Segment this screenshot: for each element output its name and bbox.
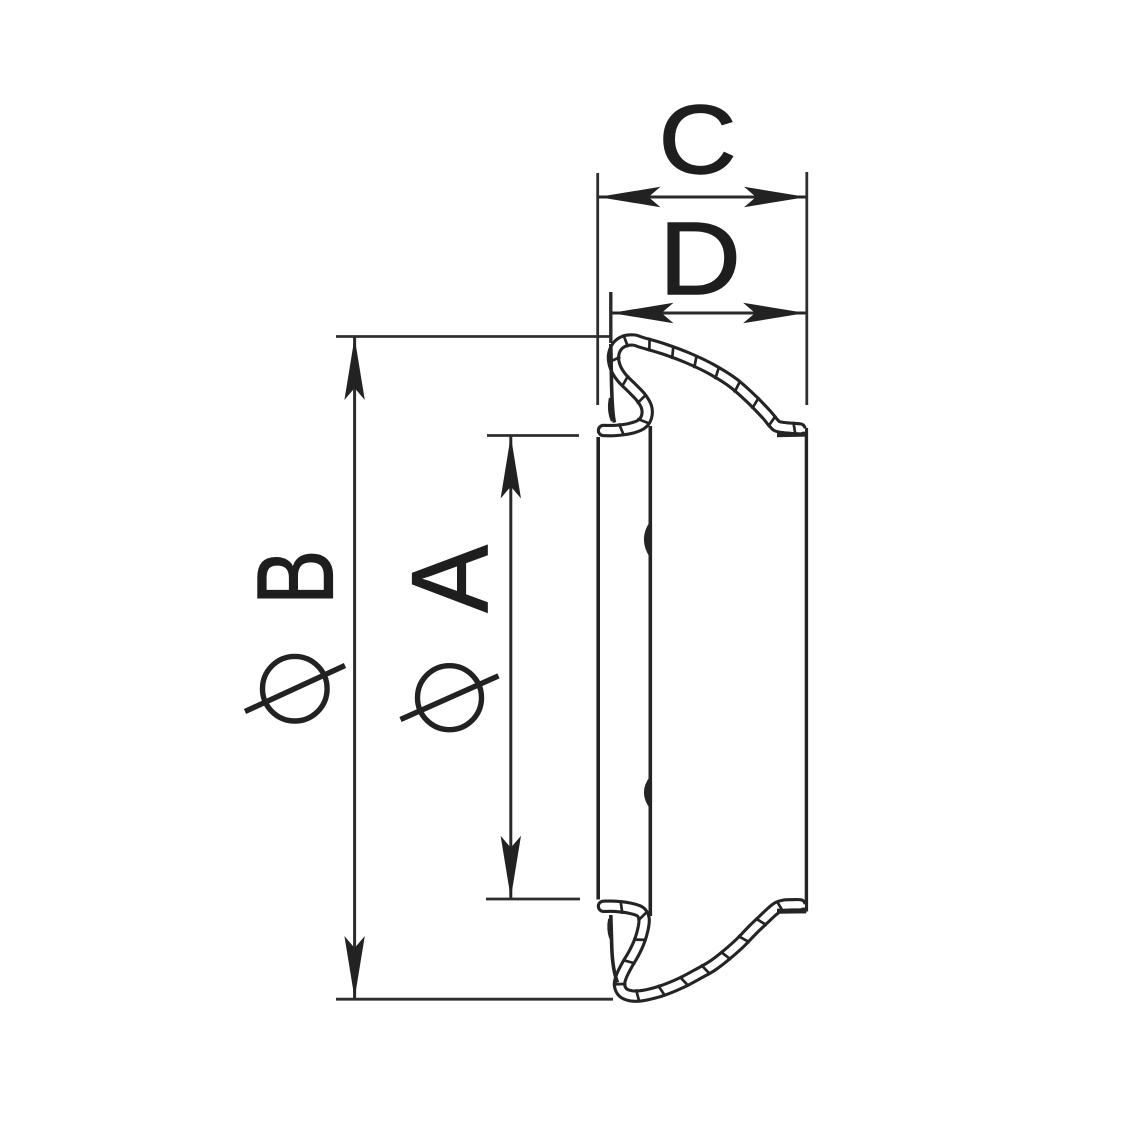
- svg-text:A: A: [390, 545, 511, 613]
- top step pinch: [777, 431, 806, 437]
- bottom rolled rim and shell section (outline): [604, 905, 801, 996]
- svg-text:D: D: [659, 202, 741, 317]
- extension line B bottom: [336, 998, 613, 1001]
- extension line D left: [609, 292, 612, 343]
- top shell section hatch ticks: [608, 335, 796, 436]
- bottom rim rolled-edge silhouette: [611, 915, 618, 983]
- bead mark upper on inner wall: [644, 521, 650, 558]
- cap outer skirt silhouette left: [596, 437, 600, 900]
- extension line A top: [487, 434, 579, 437]
- cap right edge: [805, 428, 808, 912]
- dimension line A: [501, 436, 521, 898]
- svg-text:B: B: [234, 550, 356, 605]
- top rolled rim and shell section (outline): [604, 340, 801, 431]
- svg-text:C: C: [658, 85, 736, 194]
- top rim rolled-edge silhouette: [611, 344, 615, 423]
- diameter symbol A: [401, 666, 499, 730]
- extension line A bottom: [486, 898, 580, 901]
- extension line C left: [596, 173, 599, 405]
- bottom shell section hatch ticks: [613, 900, 784, 1002]
- dimension line B: [344, 338, 364, 999]
- bottom step pinch: [777, 909, 806, 914]
- dimension line C: [598, 187, 807, 207]
- bead mark lower on inner wall: [644, 776, 650, 809]
- cap inner wall silhouette: [648, 426, 652, 916]
- dimension line D: [611, 303, 806, 323]
- extension line C/D right shared: [805, 172, 808, 405]
- diameter symbol B: [245, 656, 345, 721]
- extension line B top: [336, 335, 611, 338]
